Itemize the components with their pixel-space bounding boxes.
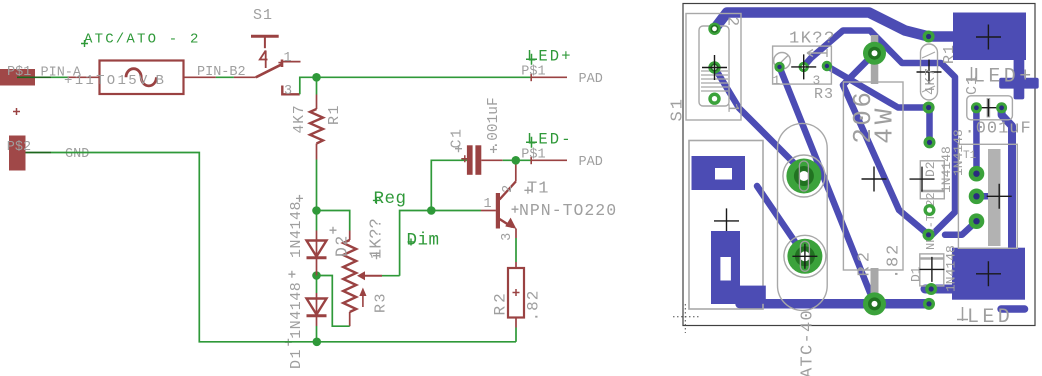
svg-text:+11TO15V: +11TO15V	[64, 73, 150, 89]
footprint fuse holder ATC	[689, 141, 818, 376]
footprint D1	[909, 245, 959, 292]
svg-text:S1: S1	[669, 97, 688, 121]
pad LED- P$1	[521, 130, 603, 170]
footprint R3 trimmer	[773, 30, 836, 104]
C1 hole right	[996, 102, 1007, 113]
R3 hole 1	[774, 62, 784, 72]
svg-text:3: 3	[284, 84, 292, 99]
svg-text:PIN-B2: PIN-B2	[197, 65, 246, 80]
svg-text:3: 3	[813, 73, 821, 88]
pad P$1 (supply +)	[0, 65, 35, 115]
wire C1 right to collector node to LED- pad	[481, 159, 531, 161]
svg-text:1: 1	[484, 197, 492, 212]
terminal big hole 1	[786, 159, 821, 194]
svg-text:P$1: P$1	[521, 65, 545, 80]
wire GND net	[26, 153, 517, 342]
GND rail end hole	[923, 298, 935, 310]
wire D1 bottom to GND rail	[316, 326, 318, 342]
R3 hole wiper	[791, 54, 816, 79]
svg-text:.82: .82	[885, 243, 904, 279]
wire junction up to C1	[431, 160, 467, 210]
svg-text:C1: C1	[449, 127, 466, 148]
trace T1 pin3 to D1	[945, 221, 977, 235]
trace C1 right to LED- pad	[1002, 108, 1012, 252]
node base junction	[427, 206, 436, 215]
svg-text:R3: R3	[814, 86, 834, 103]
capacitor C1 .001uF	[449, 97, 503, 175]
trace R2 resistor top hole going down to D1	[843, 53, 929, 235]
wire GND to R2 bottom	[515, 318, 517, 342]
trace top rail: S1 pin2 to LED+ supply pad	[715, 13, 956, 37]
pad supply + (top right)	[953, 13, 1026, 61]
svg-text:R2: R2	[492, 290, 510, 315]
svg-text:S1: S1	[253, 7, 273, 24]
svg-text:.82: .82	[525, 290, 543, 322]
D2 hole top	[924, 136, 936, 148]
wire R3 top lead	[349, 231, 351, 241]
wire Reg node to D2	[316, 211, 318, 241]
svg-text:1N4148: 1N4148	[288, 282, 305, 339]
silk label LED+	[966, 66, 1035, 89]
svg-text:PAD: PAD	[579, 155, 603, 170]
diode D2 1N4148	[288, 195, 352, 276]
svg-text:C1: C1	[964, 75, 981, 95]
svg-text:R2: R2	[856, 248, 875, 276]
terminal big hole 2	[787, 239, 822, 274]
trace D1 to LED- pad	[925, 285, 958, 294]
potentiometer R3 1K??	[343, 218, 389, 313]
T1 hole pin2	[969, 189, 985, 205]
svg-text:D2: D2	[333, 234, 352, 257]
pad P$2 (GND)	[7, 136, 31, 171]
wire R2 top to emitter	[515, 229, 517, 269]
wire junction to base	[431, 210, 496, 212]
wire fuse to switch	[184, 76, 256, 78]
svg-text:1: 1	[724, 103, 742, 113]
svg-text:GND: GND	[65, 147, 89, 162]
trace S1 common to R2 hole1	[715, 68, 804, 174]
svg-text:R3: R3	[373, 292, 390, 313]
node diode mid junction	[312, 271, 321, 280]
svg-text:2: 2	[501, 185, 516, 193]
footprint R2 input terminal (stadium)	[778, 123, 828, 310]
R2 resistor bottom hole on GND rail	[863, 292, 886, 315]
diode D1 1N4148	[285, 271, 327, 369]
resistor R1 4K7	[292, 104, 343, 144]
node GND junction	[313, 338, 322, 347]
pad LED+ P$1	[521, 47, 603, 87]
D1 hole top	[923, 229, 935, 241]
trace bottom GND rail	[740, 299, 929, 309]
svg-text:R1: R1	[941, 44, 958, 64]
wire R3 wiper to Dim node	[382, 211, 431, 276]
svg-text:T1: T1	[527, 180, 549, 199]
T1 hole pin1	[969, 166, 985, 182]
svg-text:R1: R1	[326, 104, 343, 125]
S1 hole pin2	[708, 23, 720, 35]
wire R3 bottom to diode junction	[317, 276, 350, 327]
footprint T1 TO-220	[958, 144, 1017, 248]
pad LED- minus shape	[997, 305, 1028, 313]
C1 hole left	[971, 102, 982, 113]
R1 hole top	[923, 31, 935, 43]
svg-text:ATC-40: ATC-40	[799, 309, 818, 376]
R1 hole bottom	[923, 102, 935, 114]
footprint D2	[910, 129, 967, 250]
svg-text:PAD: PAD	[579, 72, 603, 87]
trace R3 pin3 to R1 bottom	[827, 66, 929, 108]
svg-text:1: 1	[284, 51, 292, 66]
svg-text:P$1: P$1	[521, 148, 545, 163]
svg-text:1: 1	[773, 73, 781, 88]
label Dim	[407, 230, 440, 250]
junction node at R1 top	[312, 73, 321, 82]
board outline frame	[683, 4, 1035, 326]
svg-text:NPN-T022: NPN-T022	[924, 192, 938, 250]
svg-text:LED-: LED-	[527, 130, 573, 148]
trace T1 pin2 stub	[977, 193, 998, 200]
board origin dotted cross	[673, 304, 700, 333]
pad supply - (bottom right)	[952, 248, 1025, 300]
pad LED+ plus shape	[999, 55, 1038, 99]
footprint R1	[917, 44, 959, 100]
svg-text:4K7: 4K7	[923, 67, 939, 95]
S1 hole common	[702, 55, 727, 80]
wire P$1 to fuse	[17, 76, 100, 78]
svg-text:Reg: Reg	[374, 189, 407, 209]
silk label LED-	[957, 306, 1013, 329]
fuse F1 ATC/ATO - 2	[64, 32, 201, 95]
wire Reg bus	[317, 211, 350, 231]
R2 resistor top hole	[863, 42, 886, 65]
transistor T1 NPN-TO220	[484, 160, 618, 241]
trace R3 wiper to vertical bus	[804, 31, 955, 235]
wire R1 bottom to Reg node	[316, 144, 318, 211]
svg-text:4W: 4W	[870, 105, 900, 144]
R3 hole 3	[822, 61, 832, 71]
svg-text:D1: D1	[909, 266, 924, 282]
svg-text:D1: D1	[288, 348, 305, 369]
trace R3 pin1 to GND rail hole	[780, 67, 875, 304]
label Reg	[373, 189, 407, 209]
svg-text:3: 3	[500, 233, 515, 241]
svg-text:NPN-TO220: NPN-TO220	[519, 201, 617, 220]
wire D2 to D1 handled above; D1 top lead	[316, 276, 318, 299]
D1 hole bottom	[925, 283, 937, 295]
node collector junction	[512, 156, 521, 165]
svg-text:1K??: 1K??	[789, 30, 836, 49]
footprint R2 power resistor body 206/4W	[843, 35, 903, 296]
svg-text:LED+: LED+	[527, 47, 573, 65]
trace fuse pad to R2 hole2	[757, 186, 805, 256]
svg-text:2: 2	[724, 17, 742, 27]
svg-text:1N4148: 1N4148	[288, 201, 305, 258]
trace C1 left to T1 pin1	[973, 108, 980, 174]
svg-text:.001uF: .001uF	[486, 97, 502, 149]
svg-text:T1: T1	[963, 150, 977, 162]
svg-text:LED: LED	[967, 306, 1013, 329]
T1 hole pin3	[969, 213, 985, 229]
D2 hole bottom	[924, 204, 936, 216]
svg-text:LED+: LED+	[973, 66, 1035, 89]
svg-text:B: B	[156, 73, 164, 89]
svg-text:1N4148: 1N4148	[944, 245, 959, 292]
wire junction to R1	[316, 77, 318, 109]
svg-text:4K7: 4K7	[292, 104, 308, 133]
node Reg junction left	[312, 206, 321, 215]
svg-text:D2: D2	[923, 161, 938, 177]
trace R1 bottom to D2 top	[926, 108, 933, 143]
footprint C1	[964, 75, 1032, 139]
wire switch pin3 to LED+ rail	[300, 77, 531, 94]
resistor R2 .82	[492, 268, 543, 322]
switch S1	[251, 7, 301, 99]
svg-text:.001uF: .001uF	[965, 120, 1032, 139]
S1 hole pin1	[708, 93, 720, 105]
svg-text:ATC/ATO - 2: ATC/ATO - 2	[84, 32, 201, 48]
footprint S1 switch	[669, 14, 742, 122]
